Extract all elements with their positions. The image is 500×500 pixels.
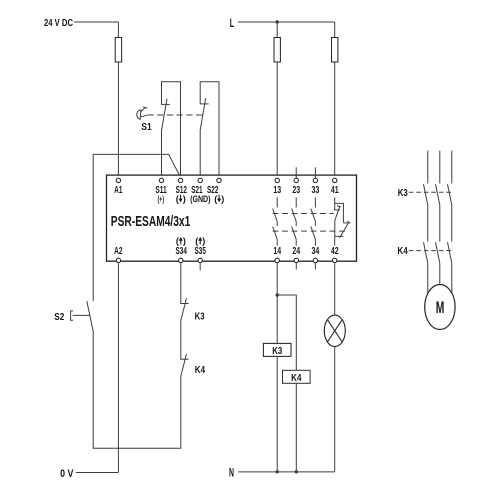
svg-text:K3: K3 [272, 345, 282, 357]
svg-text:S1: S1 [141, 121, 151, 133]
contactor K3 main contacts [424, 184, 428, 205]
S1 mushroom actuator [137, 107, 148, 120]
coil K4 [283, 370, 311, 383]
svg-text:S35: S35 [195, 246, 207, 257]
node junction N/K3 [276, 470, 279, 473]
svg-text:S2: S2 [54, 311, 64, 323]
svg-text:0 V: 0 V [60, 468, 74, 480]
svg-text:24: 24 [292, 246, 300, 257]
wire A2 to 0V [117, 263, 119, 473]
wire N rail [238, 471, 335, 473]
fuse F2 [274, 38, 280, 63]
K3 link dashed [409, 191, 453, 193]
wire 24VDC to A1 [74, 22, 118, 178]
wire K3aux-K4aux [180, 321, 182, 360]
stub below S35 [199, 263, 201, 271]
stub above 23 [295, 167, 297, 178]
svg-text:L: L [230, 16, 234, 30]
terminal labels bottom row [114, 246, 339, 257]
terminal sublabels top row [158, 194, 225, 204]
svg-text:24 V DC: 24 V DC [44, 17, 73, 29]
motor branch phase wires bottom [427, 263, 429, 293]
S1 mechanical link dashed [148, 114, 203, 116]
svg-text:N: N [229, 466, 234, 480]
svg-text:23: 23 [292, 185, 300, 196]
relay contact link dashed row1 [273, 213, 334, 215]
emergency stop S1 loop1 [162, 82, 181, 179]
node junction L/13 [276, 20, 279, 23]
node junction K3/K4 branch [276, 293, 279, 296]
svg-text:(: ( [195, 236, 198, 246]
relay NC contact 41-42 [334, 197, 350, 245]
wire 14 to K3 coil [276, 263, 278, 344]
wire S2 down to link [93, 332, 181, 448]
svg-text:): ) [221, 194, 224, 204]
relay U1 body [107, 175, 357, 261]
svg-text:): ) [183, 194, 186, 204]
svg-text:): ) [183, 236, 186, 246]
fuse F3 [332, 38, 338, 63]
svg-text:42: 42 [331, 246, 339, 257]
svg-text:K4: K4 [397, 245, 407, 257]
terminal circles top [116, 178, 337, 182]
svg-text:(+): (+) [158, 194, 165, 204]
svg-text:K4: K4 [291, 372, 301, 384]
K4 link dashed [409, 250, 453, 252]
contactor K4 main contacts [424, 242, 428, 263]
relay contact 23-24 [292, 197, 297, 245]
relay contact link dashed row2 [273, 230, 346, 232]
wire K4 coil to N [295, 383, 297, 471]
svg-text:A1: A1 [114, 185, 123, 196]
svg-text:41: 41 [331, 185, 339, 196]
S2 actuator [73, 314, 90, 316]
stub below 24 [295, 263, 297, 270]
svg-text:33: 33 [312, 185, 320, 196]
svg-text:34: 34 [312, 246, 320, 257]
svg-text:(: ( [176, 236, 179, 246]
stub below 34 [314, 263, 316, 270]
svg-text:PSR-ESAM4/3x1: PSR-ESAM4/3x1 [111, 214, 191, 230]
node junction N/K4 [295, 470, 298, 473]
wire branch to K4 coil [277, 295, 296, 370]
motor branch phase wires top [427, 151, 429, 184]
svg-text:K3: K3 [195, 310, 205, 322]
relay contact 33-34 [311, 197, 316, 245]
emergency stop S1 loop2 [200, 82, 219, 179]
svg-text:K3: K3 [398, 187, 408, 199]
wire lamp to N [334, 347, 336, 472]
wire L to 13 [276, 22, 278, 178]
terminal sublabels bottom row [176, 236, 205, 246]
contact K4 aux [180, 358, 188, 360]
svg-text:M: M [436, 299, 445, 317]
svg-text:A2: A2 [114, 246, 123, 257]
svg-text:S34: S34 [176, 246, 188, 257]
terminal circles bottom [116, 258, 337, 262]
wire 0V rail [76, 472, 119, 474]
wire L rail [238, 21, 335, 23]
fuse F1 [115, 38, 121, 63]
svg-text:(GND): (GND) [190, 194, 210, 204]
motor branch phase wires mid [427, 205, 429, 241]
svg-text:(: ( [214, 194, 217, 204]
wire S12 to S2 [93, 154, 180, 301]
lamp H1 [324, 315, 345, 346]
terminal labels top row [114, 185, 339, 196]
relay contact 13-14 [273, 197, 278, 245]
coil K3 [263, 343, 291, 356]
svg-text:): ) [202, 236, 205, 246]
stub above 33 [314, 167, 316, 178]
reset button S2 blade [87, 301, 94, 332]
contact K3 aux [180, 263, 182, 304]
wire L to 41 [334, 22, 336, 178]
svg-text:13: 13 [273, 185, 281, 196]
svg-text:K4: K4 [195, 364, 205, 376]
svg-text:14: 14 [273, 246, 281, 257]
motor M1 [425, 285, 455, 330]
svg-text:(: ( [176, 194, 179, 204]
wire 42 to lamp [334, 263, 336, 316]
wire K3 coil to N [276, 356, 278, 471]
